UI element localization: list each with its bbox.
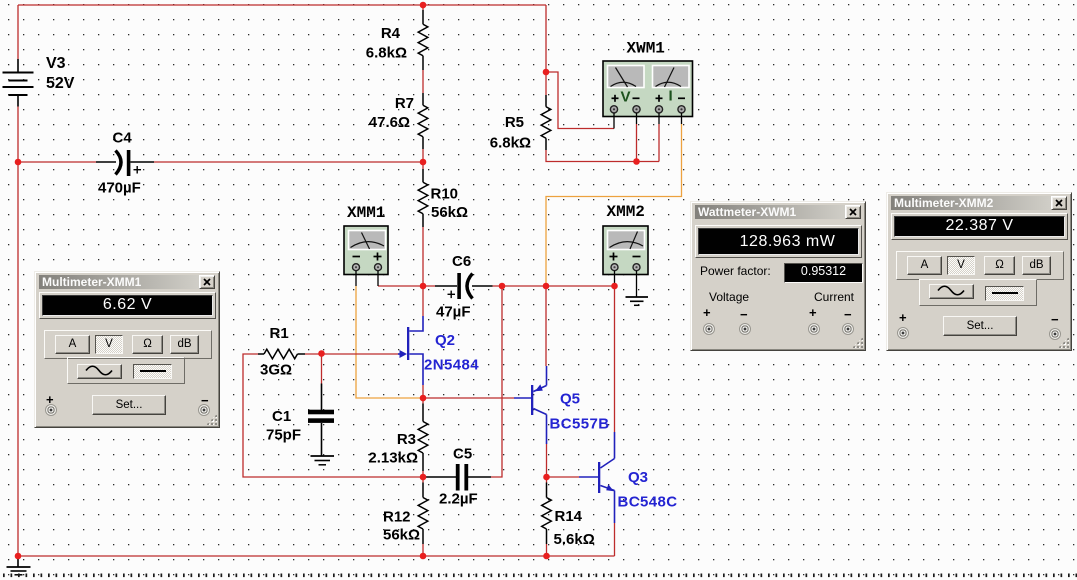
wire Q5 collector down to node [546,444,548,477]
wire node to R5 top [545,72,547,95]
ground below C1 [311,456,335,465]
junction R14/ground rail [543,553,550,560]
wire Q3 emitter down to ground rail [614,523,616,556]
resistor R5 body [541,95,551,150]
wire Q2 drain to mid rail [422,286,424,316]
junction top drop/R5/wattmeter V+ [543,69,550,76]
wire gate node to Q2 gate [322,353,401,355]
svg-text:XWM1: XWM1 [627,40,665,58]
svg-text:XMM2: XMM2 [607,203,645,221]
wire wattmeter V+ to node [546,72,614,129]
battery V3 [3,59,34,107]
svg-text:BC548C: BC548C [618,494,678,511]
wire R14 bottom to ground rail [546,544,548,556]
resistor R1 [258,349,305,359]
resistor R14 body [542,483,552,545]
multimeter icon XMM2 [603,226,648,297]
junction ground rail left [15,553,22,560]
junction C6/C5 riser [499,283,506,290]
svg-text:2.2µF: 2.2µF [439,491,478,508]
wire R12 bottom to ground rail [422,544,424,556]
svg-text:470µF: 470µF [98,180,141,197]
junction V3/C4 [15,159,22,166]
svg-text:R14: R14 [555,508,583,525]
wire R3 bottom to node [422,471,424,477]
svg-text:R1: R1 [270,325,289,342]
svg-text:I: I [669,88,673,105]
wire wattmeter I- orange to mid rail [546,124,682,286]
capacitor C1 [308,384,334,456]
junction wattmeter V- [633,158,640,165]
svg-text:47.6Ω: 47.6Ω [369,114,410,131]
capacitor C5 [423,464,491,491]
svg-text:56kΩ: 56kΩ [383,527,420,544]
instrument panel Multimeter-XMM2 [886,192,1072,351]
svg-text:R3: R3 [397,431,416,448]
PNP transistor Q5 BC557B [514,366,547,444]
svg-text:Q2: Q2 [435,332,455,349]
ground bottom-left [7,556,31,575]
svg-text:6.8kΩ: 6.8kΩ [490,135,531,152]
svg-text:V: V [621,89,631,106]
resistor R10 body [418,169,428,227]
junction top rail/R4 [420,2,427,9]
resistor R3 body [418,404,428,472]
wire node to Q3 base [547,476,580,478]
wire R4 top stub [422,5,424,10]
wire left rail V3 bottom to ground rail [17,107,19,557]
capacitor C4 (polarized) [96,150,154,176]
svg-text:5.6kΩ: 5.6kΩ [554,531,595,548]
junction C4/R7/R10 [420,159,427,166]
wire C4 row right to R-chain [154,161,423,163]
junction XMM2/Q3 collector [611,283,618,290]
wire bottom ground rail [18,555,615,557]
wire left rail V3 top [17,5,19,59]
wire top rail from V3 to R4/R5 [18,4,546,6]
svg-text:C6: C6 [452,253,471,270]
multimeter icon XMM1 [344,226,388,286]
ground below XMM2 [626,297,649,305]
svg-text:C5: C5 [453,446,472,463]
sheet boundary tick marks bottom [3,574,1077,578]
wire R7 bottom to node [422,149,424,162]
wire C4 row left [18,161,96,163]
wire R1 feedback loop left [243,354,423,477]
JFET Q2 2N5484 [398,316,423,385]
svg-text:Q5: Q5 [560,391,580,408]
junction Q2 source/R3 [420,395,427,402]
junction R1/C1/gate [318,350,325,357]
svg-text:R12: R12 [383,509,411,526]
wire R1 right to gate node [305,353,322,355]
svg-text:47µF: 47µF [436,304,471,321]
svg-text:R5: R5 [505,114,524,131]
svg-text:BC557B: BC557B [550,416,610,433]
wire node to R12 [422,477,424,483]
svg-text:C1: C1 [272,408,291,425]
wire Q2 source to node [422,385,424,398]
svg-text:2.13kΩ: 2.13kΩ [368,450,418,467]
junction R10/Q2 drain/mid rail [420,283,427,290]
instrument panel Wattmeter-XWM1 [690,201,866,351]
junction orange/Q5 emitter [543,283,550,290]
wire R10 bottom to mid rail [422,227,424,286]
svg-text:XMM1: XMM1 [347,204,385,222]
wire mid rail C6 to XMM2 [493,285,615,287]
svg-text:3GΩ: 3GΩ [260,362,292,379]
wire node to R10 [422,162,424,169]
svg-text:R10: R10 [431,186,459,203]
svg-text:Q3: Q3 [628,469,648,486]
junction Q5 collector/Q3 base/R14 [543,474,550,481]
svg-text:6.8kΩ: 6.8kΩ [366,45,407,62]
wire R4-R7 link [422,70,424,93]
wire R5 bottom corner to wattmeter I+ [546,150,659,162]
wire wattmeter I+ down [658,124,660,162]
resistor R4 body [418,10,428,70]
svg-text:R7: R7 [395,95,414,112]
resistor R12 body [418,483,428,545]
wire gate node down to C1 [321,354,323,384]
instrument panel Multimeter-XMM1 [34,271,220,428]
junction R3/R12/C5 [420,474,427,481]
wire node to R14 [546,477,548,483]
resistor R7 body [418,93,428,149]
svg-text:75pF: 75pF [266,427,301,444]
capacitor C6 (polarized) [435,273,493,299]
NPN transistor Q3 BC548C [579,432,615,523]
wire wattmeter V- down [636,124,638,162]
wire Q2 source node to Q5 base [423,397,514,399]
svg-text:C4: C4 [113,130,133,147]
wire right drop from top rail [545,5,547,72]
wire XMM2 plus node down to Q3 collector [614,286,616,432]
wire Q5 emitter to mid rail [545,286,547,366]
wire C5 right up to mid rail [491,286,502,477]
svg-text:56kΩ: 56kΩ [431,204,468,221]
svg-text:R4: R4 [381,25,401,42]
wire XMM1 minus orange to Q2 source node [356,286,423,398]
wire node to R3 [422,398,424,404]
junction R12/ground rail [420,553,427,560]
svg-text:2N5484: 2N5484 [424,357,479,374]
svg-text:52V: 52V [46,75,75,92]
wire mid rail XMM1 to C6 [378,285,435,287]
svg-text:V3: V3 [46,55,66,72]
wattmeter icon XWM1 [603,61,693,129]
